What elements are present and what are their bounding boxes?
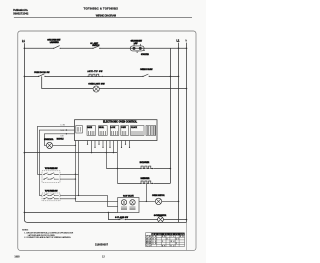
svg-text:BROIL BURNER: BROIL BURNER xyxy=(140,162,150,164)
resistor R2 broil burner xyxy=(140,162,154,169)
junction row1-L1bus xyxy=(178,48,180,50)
svg-text:OVEN DOOR SW: OVEN DOOR SW xyxy=(140,69,153,71)
ignitor E2 oven ignitor lower xyxy=(154,214,167,222)
spark switch box SW-B (dashed) xyxy=(42,191,60,201)
svg-text:L1 IN: L1 IN xyxy=(61,124,66,126)
wire U1 pin l xyxy=(121,141,123,148)
wire valve feed y201 xyxy=(75,200,117,202)
wire L1 right bus xyxy=(178,43,180,223)
lamp DS1 oven lamp xyxy=(88,83,104,92)
svg-text:TGF365BC & TGF365BX: TGF365BC & TGF365BX xyxy=(84,6,119,10)
switch S4 oven door switch right xyxy=(140,69,153,77)
junction row2-left xyxy=(24,76,26,78)
svg-text:TOP BURNER SW: TOP BURNER SW xyxy=(45,168,58,170)
gas valve V1 dual coil xyxy=(118,194,139,212)
svg-text:YL GY: YL GY xyxy=(146,245,152,247)
svg-text:STARTER: STARTER xyxy=(141,53,150,56)
wire N bus lower extension xyxy=(185,222,187,250)
wire motor to pin column xyxy=(53,144,76,146)
wire U1 pin n xyxy=(129,141,131,148)
lamp FL1 fluorescent lamp xyxy=(130,40,149,56)
wire EOC pin to valve-out xyxy=(145,183,147,201)
connector J1 EOC left block xyxy=(76,126,83,133)
header model title xyxy=(84,6,119,17)
junction motor-pincol xyxy=(75,145,76,146)
wire bottom rail xyxy=(24,212,186,222)
svg-text:ELECTRONIC OVEN CONTROL: ELECTRONIC OVEN CONTROL xyxy=(103,122,138,124)
pin labels left of U1 xyxy=(61,124,66,137)
wire U1 left pin 1 to spark box1 xyxy=(37,126,74,174)
junction bottomrow-N xyxy=(186,219,188,221)
switch S5 flame switch xyxy=(115,216,128,220)
wire U1 pin a xyxy=(78,141,80,196)
svg-text:✱ FLAME SW: ✱ FLAME SW xyxy=(115,216,128,219)
junction swB2-75 xyxy=(75,198,76,199)
resistor R1 anti-tip switch heater xyxy=(87,70,103,77)
svg-text:BROIL: BROIL xyxy=(99,127,104,129)
svg-text:OVEN IGNITOR: OVEN IGNITOR xyxy=(152,195,165,197)
junction row2-midbus xyxy=(170,76,172,78)
svg-text:ANTI-TIP SW: ANTI-TIP SW xyxy=(87,70,102,73)
svg-text:OVEN LIGHT 40W: OVEN LIGHT 40W xyxy=(88,83,104,86)
wire U1 pin j xyxy=(112,141,114,153)
relay K3 lock relay xyxy=(110,126,119,136)
wire mid right bus xyxy=(169,48,171,183)
wire U1 pin g xyxy=(102,141,104,148)
header rule xyxy=(14,17,192,19)
junction rowA-117 xyxy=(117,168,118,169)
junction row2-L1bus xyxy=(178,76,180,78)
junction swA-75 xyxy=(75,174,76,175)
wire valve out to ignitor xyxy=(139,200,155,202)
svg-text:Publication No.: Publication No. xyxy=(13,8,28,12)
wire U1 pin k feeder row B xyxy=(116,141,118,184)
junction pin2 xyxy=(66,129,67,130)
wire box SW-B row2 out xyxy=(60,198,75,200)
junction rowA-midbus xyxy=(170,168,172,170)
wire row2 oven door circuit xyxy=(24,75,178,77)
diagram border frame xyxy=(18,31,196,250)
wire N right bus xyxy=(186,43,188,223)
svg-text:LAMP: LAMP xyxy=(134,42,139,45)
wire U1 pin d xyxy=(91,141,93,153)
wire row A broil burner xyxy=(106,168,170,170)
svg-text:WIRING DIAGRAM: WIRING DIAGRAM xyxy=(96,14,116,18)
svg-text:LAMP SWITCH: LAMP SWITCH xyxy=(50,41,59,44)
svg-text:CLOCK: CLOCK xyxy=(131,127,138,129)
wire U1 pin f xyxy=(98,141,100,145)
electronic oven control U1 xyxy=(75,120,158,141)
relay K2 broil relay xyxy=(99,126,108,136)
svg-text:SPARK MOD.: SPARK MOD. xyxy=(44,138,54,141)
svg-text:2. CONNECTORS ARE A PART OF WI: 2. CONNECTORS ARE A PART OF WIRING HARNE… xyxy=(24,236,71,239)
pin end dots xyxy=(87,144,130,148)
header publication number xyxy=(13,8,29,16)
motor B1 spark module xyxy=(44,138,64,148)
svg-text:DSI: DSI xyxy=(61,136,64,138)
wire row B bake burner xyxy=(117,182,170,184)
junction row3-N xyxy=(186,88,188,90)
junction leftbus-212 xyxy=(24,212,26,214)
wire box SW-A row2 out xyxy=(60,178,75,180)
svg-text:GAS VALVE: GAS VALVE xyxy=(123,194,134,197)
switch S1 fluorescent lamp switch xyxy=(47,39,61,50)
wire row1 lamp circuit xyxy=(24,47,186,49)
junction pin3 xyxy=(66,133,67,134)
junction 212-108 xyxy=(108,212,109,213)
svg-text:MODULE: MODULE xyxy=(57,139,65,141)
wire ignitor to L1 bus xyxy=(162,200,179,202)
junction rail-113 xyxy=(113,152,114,153)
svg-text:316050007: 316050007 xyxy=(95,243,109,246)
junction rail-91 xyxy=(91,152,92,153)
svg-text:NOTES:: NOTES: xyxy=(22,229,29,231)
junction rail-leftbus xyxy=(24,152,26,154)
svg-text:N: N xyxy=(185,40,187,43)
wire box SW-B row1 out to valve branch xyxy=(60,195,118,206)
svg-text:CONV: CONV xyxy=(121,127,127,129)
switch S3 oven door switch xyxy=(34,72,50,77)
wire U1 pin m xyxy=(125,141,127,145)
wire U1 pin b long to valve xyxy=(74,141,76,202)
wire row3 oven lamp branch xyxy=(42,76,187,88)
wire box SW-A row1 out xyxy=(60,173,79,175)
wire U1 pin h feeder row A xyxy=(105,141,107,169)
junction 146-201 xyxy=(146,201,147,202)
wire U1 pin i xyxy=(109,141,111,148)
junction ignitor-L1bus xyxy=(178,201,180,203)
switch S2 lamp switch xyxy=(90,42,100,49)
notes text xyxy=(22,229,74,239)
wire U1 left pin 2 to spark box2 xyxy=(39,130,74,195)
wire left bus xyxy=(23,48,25,212)
spark switch box SW-A (dashed) xyxy=(42,168,60,182)
svg-text:1995: 1995 xyxy=(14,254,20,258)
svg-text:BAKE BURNER: BAKE BURNER xyxy=(141,177,151,180)
svg-text:SWITCH: SWITCH xyxy=(92,45,100,47)
junction swA2-75 xyxy=(75,178,76,179)
wire valve feed y212 from left bus xyxy=(24,211,117,213)
svg-text:✱ OVEN IGNITOR: ✱ OVEN IGNITOR xyxy=(154,214,167,217)
relay K4 conv relay xyxy=(121,126,129,136)
clock display U2 xyxy=(131,126,145,136)
junction swB-78 xyxy=(78,195,79,196)
svg-text:5995272342: 5995272342 xyxy=(13,11,29,15)
ignitor E1 oven ignitor xyxy=(152,195,165,204)
wire U1 left pin 3 to motor xyxy=(44,134,74,146)
wire U1 pin e xyxy=(94,141,96,148)
resistor R3 bake burner xyxy=(140,177,153,184)
connector P1 hatched block xyxy=(146,126,156,136)
junction row1-N xyxy=(186,48,188,50)
wire rail L1 lower xyxy=(24,152,117,154)
wire color table xyxy=(146,233,185,248)
svg-text:TOP BURNER SW: TOP BURNER SW xyxy=(45,191,58,193)
wire bottom row flame switch circuit xyxy=(108,212,186,219)
svg-text:LOCK: LOCK xyxy=(111,127,117,129)
wire L1 drop xyxy=(23,43,25,48)
svg-text:OVEN DOOR SW: OVEN DOOR SW xyxy=(34,72,50,74)
junction rail-106 xyxy=(106,152,107,153)
junction row1-left xyxy=(24,48,26,50)
relay K1 bake relay xyxy=(87,126,96,136)
svg-text:YL: YL xyxy=(171,236,175,238)
wire U1 pin c xyxy=(87,141,89,145)
